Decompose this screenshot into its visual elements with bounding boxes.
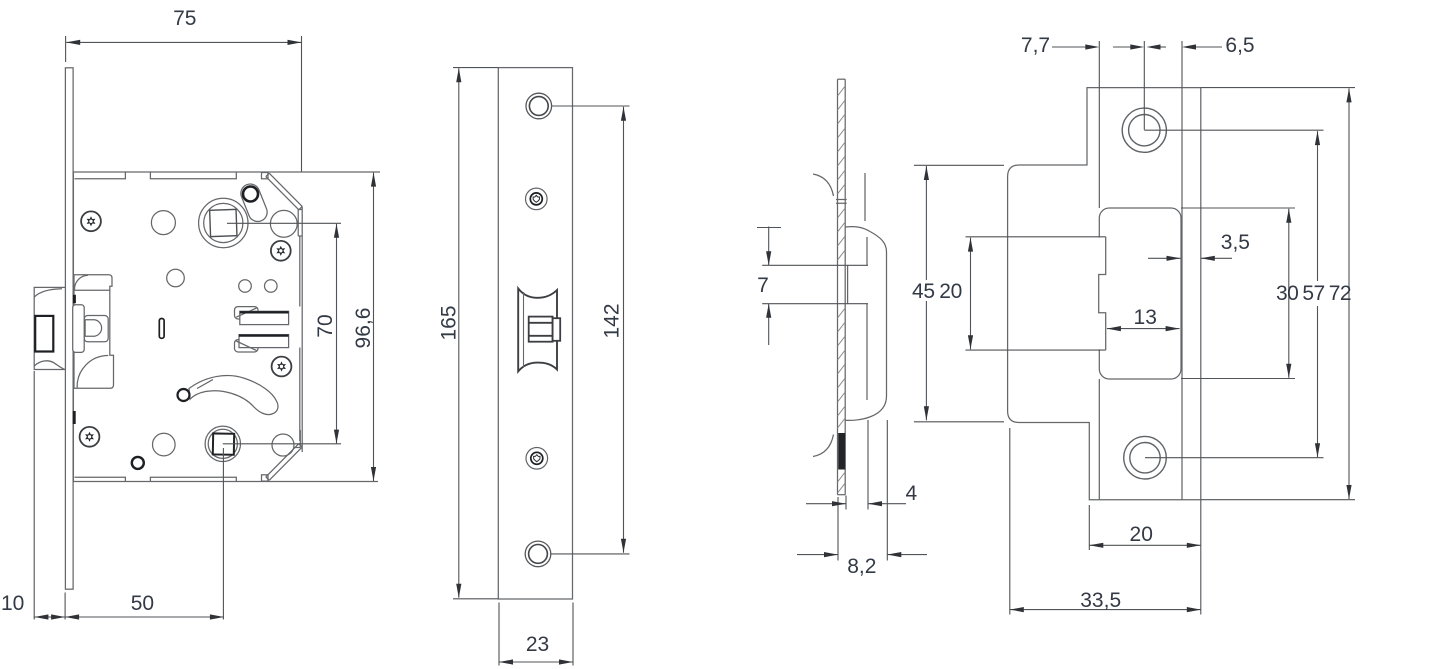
svg-text:45 20: 45 20 [912,280,962,303]
svg-text:70: 70 [314,314,337,337]
svg-text:20: 20 [1130,523,1153,546]
svg-text:10: 10 [1,592,24,615]
svg-text:33,5: 33,5 [1080,589,1121,612]
svg-text:7: 7 [757,274,769,297]
svg-text:8,2: 8,2 [847,555,876,578]
svg-text:4: 4 [906,482,918,505]
svg-text:13: 13 [1134,306,1157,329]
svg-text:6,5: 6,5 [1225,34,1254,57]
svg-text:96,6: 96,6 [352,308,375,349]
svg-text:165: 165 [438,305,461,340]
svg-text:75: 75 [173,7,196,30]
svg-text:3,5: 3,5 [1221,231,1250,254]
svg-text:50: 50 [131,592,154,615]
svg-text:142: 142 [601,303,624,338]
svg-text:7,7: 7,7 [1021,34,1050,57]
svg-text:23: 23 [526,633,549,656]
svg-text:30 57 72: 30 57 72 [1276,282,1351,305]
